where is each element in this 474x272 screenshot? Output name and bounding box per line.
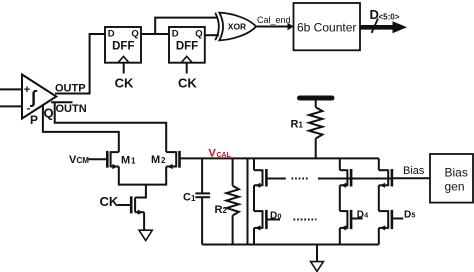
label M1 [121,154,136,166]
svg-text:<5:0>: <5:0> [379,12,400,21]
svg-text:1: 1 [131,157,136,166]
label R2 [215,204,228,216]
svg-text:4: 4 [364,213,368,220]
label M2 [151,154,166,166]
wire U1 +input [0,88,22,90]
wire D4 col mid [339,185,341,211]
wire DFF1 Q to DFF2 D [141,33,169,35]
wire D5 col mid [378,185,380,211]
svg-text:D: D [404,209,411,220]
label D5 [404,209,416,220]
wire VCM to M1 gate [89,158,107,160]
svg-text:M: M [121,154,130,166]
dots D gates row [294,219,317,221]
wire Q output to M2 drain [55,102,167,152]
label C1 [183,192,196,204]
wire CK to DFF U3 [186,63,188,74]
wire CK to DFF U2 [123,63,125,74]
wire col1 source to rail [253,228,255,245]
transistor D0 switch [254,210,263,212]
transistor M1 [111,151,119,153]
net label VCAL [209,148,232,160]
svg-text:Bias: Bias [403,165,425,177]
svg-text:XOR: XOR [228,21,246,31]
svg-text:V: V [209,148,217,160]
svg-text:6b Counter: 6b Counter [297,21,356,35]
wire U1 -input [0,105,22,107]
wire ground stub (array) [316,245,318,262]
DFF U2 [105,27,141,63]
bus arrow D<5:0> [360,19,407,34]
svg-text:Q: Q [131,29,138,40]
wire D5 col source to rail [378,228,380,245]
wire DFF2 Q to XOR input B [205,34,219,36]
transistor bias col D5 top [379,158,392,188]
node OUTN label (with overbar) [51,102,87,115]
resistor R1 [309,100,322,158]
svg-text:DFF: DFF [176,41,198,53]
wire D5 gate stub [393,218,403,220]
svg-text:OUTN: OUTN [56,103,87,115]
svg-text:CK: CK [115,76,134,91]
svg-text:CAL: CAL [217,152,232,159]
svg-text:CK: CK [178,76,197,91]
net label VCM [69,154,89,166]
block Bias gen [430,154,473,203]
ground (array) [311,262,324,272]
net VCAL rail [181,157,379,159]
svg-text:1: 1 [191,194,196,203]
wire tail source to ground [143,212,145,230]
wire OUTP to DFF1 D [55,34,105,94]
capacitor C1 [195,158,210,244]
wire Cal_end with arrowhead [256,23,294,30]
transistor bias col D4 top [340,158,351,188]
wire array bottom rail [202,244,379,246]
ground (tail) [139,230,152,240]
net label D<5:0> [370,7,400,22]
svg-text:5: 5 [412,213,416,220]
svg-text:C: C [183,192,191,204]
wire D4 gate stub [352,218,362,220]
op-amp U1 (integrator comparator) [22,75,56,119]
svg-text:CK: CK [100,194,119,209]
resistor R2 [226,158,238,244]
transistor Q3 (tail, CK) [131,196,144,215]
svg-text:M: M [151,154,160,166]
label D0 [270,210,282,221]
XOR gate U4 [215,13,256,41]
svg-text:Q: Q [44,106,54,121]
svg-text:2: 2 [161,156,166,165]
wire bias gate line (solid+dots) [268,178,391,180]
svg-text:Cal_end: Cal_end [257,15,291,25]
svg-text:∫: ∫ [30,87,38,107]
svg-text:P: P [30,113,38,127]
label R1 [291,118,304,130]
transistor bias col1 top [254,158,266,188]
svg-text:Q: Q [195,29,202,40]
svg-text:+: + [24,84,30,96]
svg-text:gen: gen [445,180,465,194]
wire Bias to Bias gen [393,177,430,179]
wire D0 gate stub [268,219,280,221]
svg-text:CM: CM [77,156,90,165]
transistor M2 [166,151,176,153]
wire col1 mid [253,185,255,211]
DFF U3 [169,27,205,63]
transistor D5 switch [379,210,388,212]
wire array left edge [247,158,249,244]
svg-text:DFF: DFF [112,41,134,53]
svg-text:R: R [291,118,299,130]
wire CK to tail gate [118,204,131,206]
block 6b Counter [294,3,361,50]
svg-text:Bias: Bias [445,165,468,179]
wire M1/M2 common source to tail [118,167,167,198]
svg-text:D: D [172,29,179,40]
svg-text:2: 2 [223,206,228,215]
svg-text:D: D [108,29,115,40]
supply rail (VDD bar) [300,96,333,101]
svg-text:D: D [370,7,379,22]
wire P output to M1 drain [43,104,119,152]
label D4 [357,209,369,220]
wire DFF1 Q up to XOR input A [155,18,217,34]
svg-text:1: 1 [299,121,304,130]
transistor D4 switch [340,210,348,212]
svg-text:R: R [215,204,223,216]
wire D4 col source to rail [339,228,341,245]
